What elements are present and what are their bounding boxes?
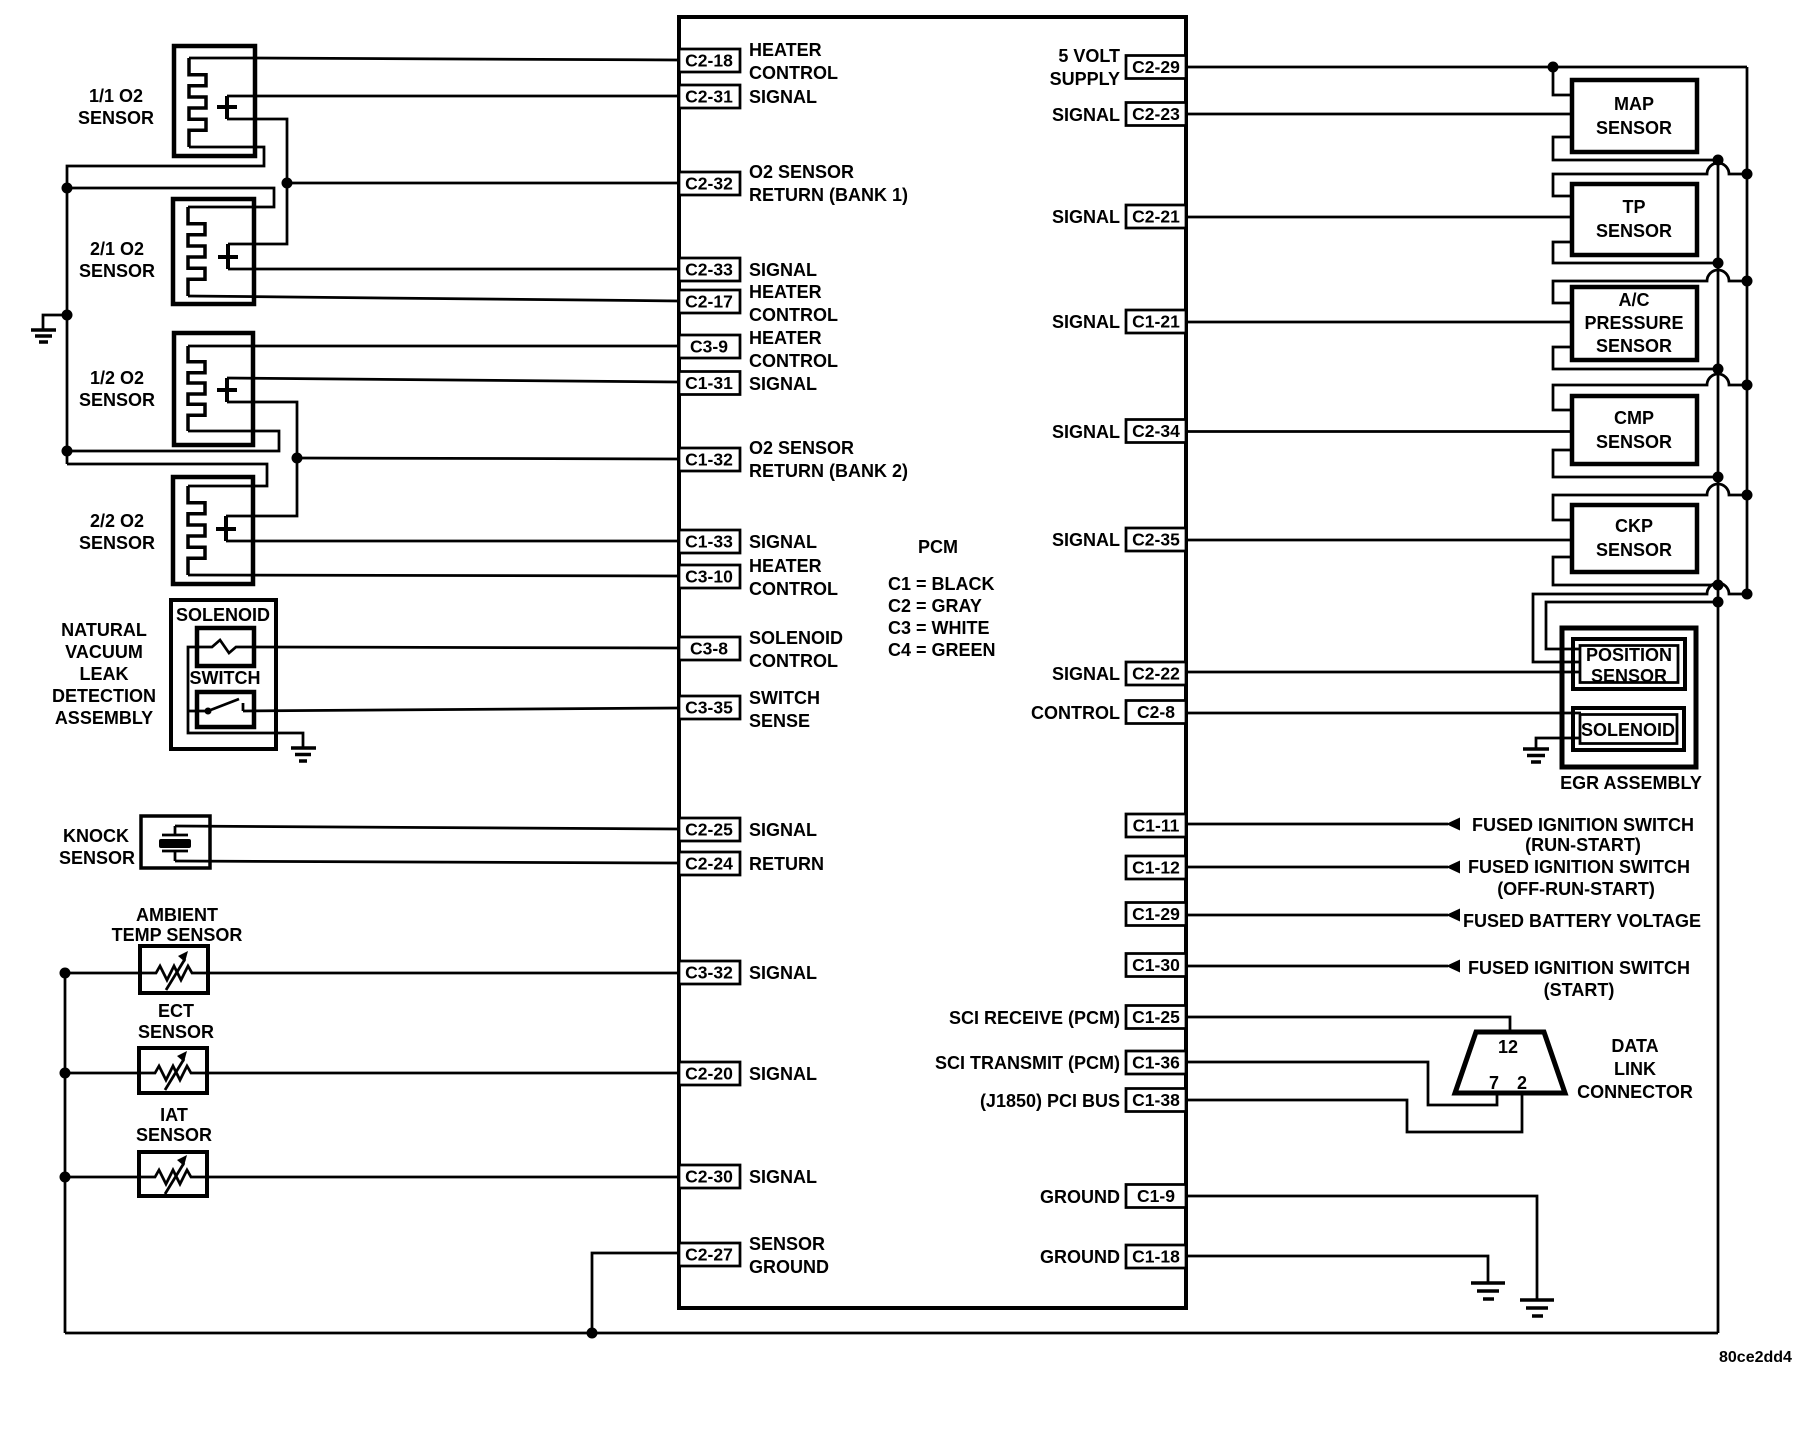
label C2-22 signal [1052, 664, 1120, 684]
pin C2-17 [679, 290, 740, 313]
svg-text:CONTROL: CONTROL [749, 351, 838, 371]
svg-text:DATA: DATA [1611, 1036, 1658, 1056]
wire left O2 ground bus [66, 188, 69, 464]
svg-text:SENSOR: SENSOR [138, 1022, 214, 1042]
svg-text:C2-27: C2-27 [685, 1245, 733, 1265]
svg-text:SENSOR: SENSOR [1596, 336, 1672, 356]
svg-text:SENSOR: SENSOR [1596, 118, 1672, 138]
label C2-8 control [1031, 703, 1120, 723]
pin C2-29 [1126, 56, 1186, 79]
label MAP sensor [1596, 94, 1672, 138]
svg-text:CKP: CKP [1615, 516, 1653, 536]
pin C1-25 [1126, 1006, 1186, 1029]
label C2-34 signal [1052, 422, 1120, 442]
label natural vacuum leak detection assembly [52, 620, 156, 728]
wire NVLD internal common to ground [188, 647, 303, 748]
wire IAT sensor signal to C2-30 [207, 1176, 679, 1179]
svg-text:SIGNAL: SIGNAL [1052, 422, 1120, 442]
label C2-21 signal [1052, 207, 1120, 227]
svg-text:C1-18: C1-18 [1132, 1247, 1180, 1267]
label C1-38 J1850 PCI bus [980, 1091, 1120, 1111]
pin C1-11 [1126, 814, 1186, 837]
pin C1-12 [1126, 856, 1186, 879]
svg-text:LEAK: LEAK [80, 664, 129, 684]
junction dot CMP 5V bus [1742, 380, 1753, 391]
svg-text:A/C: A/C [1619, 290, 1650, 310]
svg-text:C1-38: C1-38 [1132, 1090, 1180, 1110]
wire 1/2 heater control to C3-9 [188, 345, 679, 348]
NVLD solenoid coil element [197, 640, 254, 653]
svg-text:C2-18: C2-18 [685, 51, 733, 71]
svg-text:CMP: CMP [1614, 408, 1654, 428]
wire 1/1 heater ground to left bus [67, 147, 264, 188]
wire O2 return bank2 to C1-32 [297, 458, 679, 459]
svg-text:C3-32: C3-32 [685, 963, 733, 983]
wire 2/2 heater control to C3-10 [188, 575, 679, 576]
pin C1-32 [679, 448, 740, 471]
svg-text:1/1 O2: 1/1 O2 [89, 86, 143, 106]
svg-text:SOLENOID: SOLENOID [176, 605, 270, 625]
svg-text:C1-25: C1-25 [1132, 1007, 1180, 1027]
svg-text:AMBIENT: AMBIENT [136, 905, 218, 925]
O2 sensor 2/2 heater element comb [188, 486, 205, 575]
svg-text:SENSOR: SENSOR [79, 261, 155, 281]
wire knock return to C2-24 [175, 861, 679, 863]
ground symbol C1-18 [1471, 1283, 1505, 1299]
wire 1/2 heater ground to left bus [67, 431, 279, 451]
svg-text:C1-30: C1-30 [1132, 955, 1180, 975]
label ambient temp sensor [112, 905, 243, 945]
O2 sensor 2/2 sensing element (+) [216, 516, 236, 541]
svg-text:GROUND: GROUND [749, 1257, 829, 1277]
svg-text:SIGNAL: SIGNAL [1052, 105, 1120, 125]
O2 sensor 1/2 sensing element (+) [217, 378, 237, 402]
svg-text:SOLENOID: SOLENOID [749, 628, 843, 648]
ground symbol EGR solenoid [1523, 749, 1549, 762]
svg-text:(OFF-RUN-START): (OFF-RUN-START) [1497, 879, 1655, 899]
junction dot CKP 5V bus [1742, 490, 1753, 501]
svg-text:(J1850) PCI BUS: (J1850) PCI BUS [980, 1091, 1120, 1111]
label C1-9 ground [1040, 1187, 1120, 1207]
svg-text:SIGNAL: SIGNAL [749, 1064, 817, 1084]
label CKP sensor [1596, 516, 1672, 560]
junction dot bus ECT [60, 1068, 71, 1079]
arrow C1-30 supply [1446, 960, 1460, 973]
svg-text:C2-17: C2-17 [685, 292, 733, 312]
svg-text:80ce2dd4: 80ce2dd4 [1719, 1349, 1792, 1366]
label fused supply at C1-30 [1468, 958, 1690, 1000]
label C1-36 SCI transmit [935, 1053, 1120, 1073]
label TP sensor [1596, 197, 1672, 241]
svg-text:FUSED BATTERY VOLTAGE: FUSED BATTERY VOLTAGE [1463, 911, 1701, 931]
svg-text:2: 2 [1517, 1073, 1527, 1093]
A/C pressure sensor box [1572, 287, 1697, 360]
svg-text:SIGNAL: SIGNAL [749, 87, 817, 107]
svg-text:SWITCH: SWITCH [749, 688, 820, 708]
svg-text:SENSOR: SENSOR [749, 1234, 825, 1254]
wire NVLD solenoid control to C3-8 [254, 647, 679, 648]
wire EGR position sensor return [1546, 602, 1718, 649]
label ECT sensor [138, 1001, 214, 1042]
PCM box [679, 17, 1186, 1308]
svg-text:C1-9: C1-9 [1137, 1186, 1175, 1206]
svg-text:ECT: ECT [158, 1001, 194, 1021]
wire temp sensor ground bus [64, 973, 67, 1333]
wire A/C pressure signal [1186, 321, 1572, 324]
svg-text:SENSOR: SENSOR [79, 390, 155, 410]
label fused supply at C1-29 [1463, 911, 1701, 931]
wire sensor return bus [1717, 160, 1720, 1333]
svg-text:C3-10: C3-10 [685, 567, 733, 587]
O2 sensor 1/2 heater element comb [188, 346, 205, 431]
IAT sensor box [139, 1152, 207, 1196]
label C3-35 switch sense [749, 688, 820, 731]
svg-text:C1-36: C1-36 [1132, 1053, 1180, 1073]
svg-text:C1-12: C1-12 [1132, 858, 1180, 878]
wire C1-25 SCI receive to DLC pin 12 [1186, 1017, 1510, 1032]
EGR solenoid box [1573, 708, 1684, 750]
label C2-18 heater control [749, 40, 838, 83]
svg-text:PRESSURE: PRESSURE [1584, 313, 1683, 333]
wire IAT sensor to left bus [65, 1176, 139, 1179]
wire C1-36 SCI transmit to DLC pin 7 [1186, 1062, 1497, 1105]
junction dot TP return bus [1713, 258, 1724, 269]
NVLD switch box [197, 692, 254, 727]
wire TP signal [1186, 216, 1572, 219]
wire EGR position sensor 5V feed with hop [1533, 583, 1747, 662]
MAP sensor box [1572, 80, 1697, 152]
svg-text:CONTROL: CONTROL [749, 305, 838, 325]
wire CKP signal [1186, 539, 1572, 542]
knock sensor box [141, 816, 210, 868]
wire C2-27 sensor ground drop [592, 1253, 679, 1333]
wire 1/2 sensor return down to junction [227, 402, 297, 458]
svg-text:C1-33: C1-33 [685, 532, 733, 552]
junction dot CMP return bus [1713, 472, 1724, 483]
pin C3-8 [679, 637, 740, 660]
label C2-17 heater control [749, 282, 838, 325]
label data link connector [1577, 1036, 1693, 1102]
pin C1-21 [1126, 310, 1186, 333]
label C2-31 signal [749, 87, 817, 107]
label C1-25 SCI receive [949, 1008, 1120, 1028]
wire 1/1 heater control to C2-18 [189, 58, 679, 60]
svg-text:SIGNAL: SIGNAL [749, 963, 817, 983]
svg-text:C2-30: C2-30 [685, 1167, 733, 1187]
wire EGR solenoid ground lead [1536, 738, 1581, 749]
O2 sensor 2/1 box [173, 199, 254, 304]
wire 2/1 heater to left ground bus [67, 188, 274, 207]
ECT sensor box [139, 1048, 207, 1093]
wire MAP 5V feed [1553, 67, 1572, 95]
wire CMP signal [1186, 430, 1572, 433]
svg-text:C3-9: C3-9 [690, 337, 728, 357]
wire NVLD switch left stub [188, 710, 208, 713]
wire C1-12 to fused supply [1186, 866, 1448, 869]
junction dot bus IAT [60, 1172, 71, 1183]
label 2/1 O2 sensor [79, 239, 155, 281]
NVLD assembly outer box [171, 600, 276, 749]
pin C3-32 [679, 961, 740, 984]
label C3-9 heater control [749, 328, 838, 371]
junction dot A/C pressure return bus [1713, 364, 1724, 375]
wire C1-38 PCI bus to DLC pin 2 [1186, 1093, 1522, 1132]
wire C1-9 ground [1186, 1196, 1537, 1300]
NVLD switch contact and blade [205, 699, 244, 715]
svg-text:C3 = WHITE: C3 = WHITE [888, 618, 990, 638]
svg-text:GROUND: GROUND [1040, 1187, 1120, 1207]
pin C2-22 [1126, 662, 1186, 685]
label C1-31 signal [749, 374, 817, 394]
svg-text:HEATER: HEATER [749, 40, 822, 60]
wire 2/1 heater control to C2-17 [188, 296, 679, 301]
svg-text:SENSOR: SENSOR [1596, 221, 1672, 241]
wire 2/1 sensor return up to junction [228, 183, 287, 244]
svg-text:SIGNAL: SIGNAL [1052, 664, 1120, 684]
svg-text:SENSOR: SENSOR [1596, 432, 1672, 452]
wire 5V supply bus [1746, 67, 1749, 594]
svg-text:O2 SENSOR: O2 SENSOR [749, 438, 854, 458]
wire CKP return to bus [1553, 557, 1718, 585]
wire A/C pressure 5V feed with hop over return bus [1553, 270, 1747, 303]
label IAT sensor [136, 1105, 212, 1145]
label C3-32 signal [749, 963, 817, 983]
wire CMP 5V feed with hop over return bus [1553, 374, 1747, 410]
wire C2-29 5 volt supply [1186, 66, 1747, 69]
wire TP return to bus [1553, 242, 1718, 263]
label C2-24 return [749, 854, 824, 874]
svg-text:C2-20: C2-20 [685, 1064, 733, 1084]
ground symbol left O2 bus [31, 315, 67, 342]
O2 sensor 1/2 box [174, 333, 253, 445]
arrow C1-12 supply [1446, 861, 1460, 874]
wire C1-18 ground [1186, 1256, 1488, 1283]
label C2-25 signal [749, 820, 817, 840]
wire ambient temp sensor signal to C3-32 [208, 972, 679, 975]
junction dot bus ground tap [62, 310, 73, 321]
O2 sensor 1/1 sensing element (+) [217, 96, 237, 119]
O2 sensor 1/1 box [174, 46, 255, 156]
wire 1/1 sensor return down to junction [227, 119, 287, 183]
pin C2-31 [679, 85, 740, 108]
wire EGR solenoid control from C2-8 [1186, 712, 1581, 715]
wire NVLD switch sense to C3-35 [243, 708, 679, 711]
svg-text:KNOCK: KNOCK [63, 826, 129, 846]
svg-text:C2-34: C2-34 [1132, 421, 1180, 441]
wire 2/2 signal to C1-33 [226, 540, 679, 543]
label 1/2 O2 sensor [79, 368, 155, 410]
svg-text:C1-21: C1-21 [1132, 312, 1180, 332]
wire 1/1 signal to C2-31 [227, 95, 679, 98]
svg-text:EGR ASSEMBLY: EGR ASSEMBLY [1560, 773, 1702, 793]
pin C2-18 [679, 49, 740, 72]
svg-text:RETURN (BANK 2): RETURN (BANK 2) [749, 461, 908, 481]
wire C1-11 to fused supply [1186, 823, 1448, 826]
svg-text:HEATER: HEATER [749, 282, 822, 302]
label C2-32 O2 sensor return bank 1 [749, 162, 908, 205]
junction dot left bus / 2/1 heater [62, 183, 73, 194]
svg-text:LINK: LINK [1614, 1059, 1656, 1079]
IAT sensor thermistor element [139, 1155, 207, 1194]
svg-text:FUSED IGNITION SWITCH: FUSED IGNITION SWITCH [1472, 815, 1694, 835]
junction dot left bus / 1/2 heater [62, 446, 73, 457]
label C2-23 signal [1052, 105, 1120, 125]
junction dot MAP 5V tap [1548, 62, 1559, 73]
label C2-27 sensor ground [749, 1234, 829, 1277]
ECT sensor thermistor element [139, 1051, 207, 1090]
wire bottom sensor ground return [65, 1332, 1718, 1335]
data link connector body [1455, 1032, 1565, 1093]
svg-text:SENSOR: SENSOR [78, 108, 154, 128]
pin C2-25 [679, 818, 740, 841]
pin C1-31 [679, 372, 740, 395]
svg-text:CONTROL: CONTROL [749, 651, 838, 671]
svg-text:HEATER: HEATER [749, 556, 822, 576]
svg-text:IAT: IAT [160, 1105, 188, 1125]
svg-text:C3-35: C3-35 [685, 698, 733, 718]
junction dot O2 return bank2 [292, 453, 303, 464]
pin C2-30 [679, 1165, 740, 1188]
pin C1-38 [1126, 1089, 1186, 1112]
wire 1/2 signal to C1-31 [227, 378, 679, 382]
label C2-30 signal [749, 1167, 817, 1187]
CMP sensor box [1572, 396, 1697, 464]
pin C2-23 [1126, 103, 1186, 126]
svg-text:C2-8: C2-8 [1137, 702, 1175, 722]
svg-text:SUPPLY: SUPPLY [1050, 69, 1120, 89]
wire ambient temp sensor to left bus [65, 972, 140, 975]
svg-text:SENSOR: SENSOR [1596, 540, 1672, 560]
svg-text:C3-8: C3-8 [690, 639, 728, 659]
label C2-29 5 volt supply [1050, 46, 1120, 89]
svg-text:FUSED IGNITION SWITCH: FUSED IGNITION SWITCH [1468, 958, 1690, 978]
wire TP 5V feed with hop over return bus [1553, 163, 1747, 196]
wire ECT sensor to left bus [65, 1072, 139, 1075]
svg-text:SIGNAL: SIGNAL [1052, 530, 1120, 550]
svg-text:SIGNAL: SIGNAL [1052, 207, 1120, 227]
wire ECT sensor signal to C2-20 [207, 1072, 679, 1075]
pin C1-29 [1126, 903, 1186, 926]
label C1-18 ground [1040, 1247, 1120, 1267]
pin C3-9 [679, 335, 740, 358]
svg-text:12: 12 [1498, 1037, 1518, 1057]
arrow C1-29 supply [1446, 909, 1460, 922]
O2 sensor 2/2 box [173, 477, 253, 584]
svg-text:GROUND: GROUND [1040, 1247, 1120, 1267]
svg-text:SIGNAL: SIGNAL [749, 820, 817, 840]
label C2-20 signal [749, 1064, 817, 1084]
svg-text:DETECTION: DETECTION [52, 686, 156, 706]
svg-text:SIGNAL: SIGNAL [749, 260, 817, 280]
svg-text:VACUUM: VACUUM [65, 642, 143, 662]
svg-text:(START): (START) [1544, 980, 1615, 1000]
pin C2-34 [1126, 420, 1186, 443]
label C1-32 O2 sensor return bank 2 [749, 438, 908, 481]
label C1-21 signal [1052, 312, 1120, 332]
label C3-10 heater control [749, 556, 838, 599]
pin C2-33 [679, 258, 740, 281]
svg-text:C2-35: C2-35 [1132, 530, 1180, 550]
svg-text:FUSED IGNITION SWITCH: FUSED IGNITION SWITCH [1468, 857, 1690, 877]
pin C3-35 [679, 696, 740, 719]
NVLD solenoid box [197, 628, 254, 666]
svg-text:ASSEMBLY: ASSEMBLY [55, 708, 153, 728]
svg-text:C1-31: C1-31 [685, 373, 733, 393]
pin C2-32 [679, 172, 740, 195]
label C2-35 signal [1052, 530, 1120, 550]
svg-text:O2 SENSOR: O2 SENSOR [749, 162, 854, 182]
svg-text:C1 = BLACK: C1 = BLACK [888, 574, 995, 594]
svg-text:5 VOLT: 5 VOLT [1058, 46, 1120, 66]
O2 sensor 1/1 heater element comb [189, 58, 206, 147]
svg-text:C2-24: C2-24 [685, 854, 733, 874]
wire 2/2 heater to left ground bus [67, 464, 267, 486]
pin C2-20 [679, 1062, 740, 1085]
svg-text:C4 = GREEN: C4 = GREEN [888, 640, 996, 660]
svg-text:C2-22: C2-22 [1132, 664, 1180, 684]
junction dot sensor ground bottom [587, 1328, 598, 1339]
pin C1-33 [679, 530, 740, 553]
svg-text:C2-29: C2-29 [1132, 57, 1180, 77]
svg-text:SENSE: SENSE [749, 711, 810, 731]
svg-text:2/2 O2: 2/2 O2 [90, 511, 144, 531]
label A/C pressure sensor [1584, 290, 1683, 356]
junction dot EGR 5V bus end [1742, 589, 1753, 600]
svg-text:TP: TP [1622, 197, 1645, 217]
svg-text:C1-11: C1-11 [1133, 816, 1180, 836]
wire 2/2 sensor return up to junction [226, 458, 297, 516]
pin C2-21 [1126, 205, 1186, 228]
svg-text:SENSOR: SENSOR [136, 1125, 212, 1145]
wire knock signal to C2-25 [175, 826, 679, 829]
label CMP sensor [1596, 408, 1672, 452]
svg-text:SIGNAL: SIGNAL [749, 1167, 817, 1187]
svg-text:1/2 O2: 1/2 O2 [90, 368, 144, 388]
pin C1-30 [1126, 954, 1186, 977]
pin C2-27 [679, 1243, 740, 1266]
svg-text:C2-33: C2-33 [685, 260, 733, 280]
CKP sensor box [1572, 505, 1697, 572]
label position sensor [1586, 645, 1672, 686]
EGR position sensor box [1573, 639, 1685, 689]
svg-text:SIGNAL: SIGNAL [1052, 312, 1120, 332]
svg-text:CONTROL: CONTROL [749, 63, 838, 83]
svg-text:SWITCH: SWITCH [190, 668, 261, 688]
ground symbol C1-9 [1520, 1300, 1554, 1316]
label C3-8 solenoid control [749, 628, 843, 671]
svg-text:C2-21: C2-21 [1132, 207, 1180, 227]
svg-text:7: 7 [1489, 1073, 1499, 1093]
wire EGR position sensor signal from C2-22 [1186, 671, 1581, 674]
TP sensor box [1572, 184, 1697, 255]
junction dot bus ambient [60, 968, 71, 979]
svg-text:C2-31: C2-31 [685, 87, 733, 107]
svg-text:C1-32: C1-32 [685, 450, 733, 470]
O2 sensor 2/1 sensing element (+) [218, 244, 238, 269]
pin C2-8 [1126, 701, 1186, 724]
svg-text:SENSOR: SENSOR [59, 848, 135, 868]
EGR assembly outer box [1562, 628, 1696, 767]
wire MAP return to bus [1553, 137, 1718, 160]
svg-text:SIGNAL: SIGNAL [749, 532, 817, 552]
wire C1-30 to fused supply [1186, 965, 1448, 968]
wire CKP 5V feed with hop over return bus [1553, 484, 1747, 520]
ambient temp sensor box [140, 946, 208, 993]
pin C1-36 [1126, 1051, 1186, 1074]
junction dot MAP return bus [1713, 155, 1724, 166]
label fused supply at C1-12 [1468, 857, 1690, 899]
svg-text:RETURN: RETURN [749, 854, 824, 874]
